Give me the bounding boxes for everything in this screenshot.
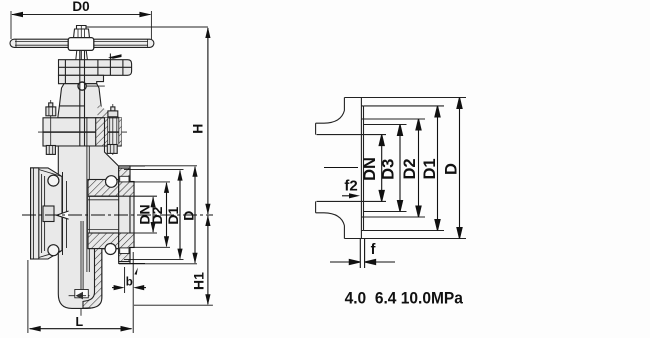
dimension b [112,252,146,333]
svg-text:D0: D0 [72,0,89,14]
dimension H [205,27,210,215]
dimension D0 line with arrows [11,12,151,18]
stuffing box block under yoke [59,75,104,83]
dimension D2 (left figure) [129,182,170,247]
flange left face (upper segment) [343,98,345,111]
yoke plate [59,54,132,76]
svg-text:D1: D1 [421,158,439,179]
bonnet bolt right in section [105,104,122,155]
pipe end edge lower [315,201,317,212]
svg-text:D: D [181,211,197,221]
inlet flange left [31,168,62,259]
outlet flange disc in section [119,166,145,264]
pipe hub lower wall with fillet [316,213,345,226]
bonnet bell [58,84,108,118]
H top reference line from stem to H dimension [86,26,207,28]
body bottom wall hatch crescent [83,249,102,309]
dimension DN (left figure) [151,196,156,233]
vertical axis stub below body [80,309,82,316]
svg-text:D1: D1 [165,207,181,225]
right figure: pipe flange cross-section [316,98,466,239]
bore line bottom (DN extension) [317,200,387,202]
bonnet wall hatch band [96,118,105,180]
flange OD bottom line / D extension [344,238,466,240]
centerline segment of flange [324,167,358,169]
raised face of flange [361,106,363,231]
inlet flange bolt hole top [48,175,59,186]
handwheel hub [68,38,94,51]
D3 extension line bottom [364,211,407,213]
small arrow mark above yoke [108,54,122,59]
dimension f (raised face thickness) [330,239,395,268]
svg-text:D3: D3 [380,159,398,180]
inlet flange bolt hole bottom [48,245,59,256]
handwheel bar [10,39,154,47]
port interior fill [88,196,130,233]
bonnet gasket joint line [38,131,127,133]
flange right face [360,98,362,239]
pipe hub upper wall with fillet [316,111,345,124]
flange OD top line / D extension [344,97,466,99]
svg-text:D2: D2 [149,206,165,224]
D2 extension line bottom [362,216,426,218]
D2 extension line top [362,118,426,120]
svg-text:D: D [442,163,460,175]
D3 extension line top [364,124,407,126]
flange left face (lower segment) [343,226,345,239]
horizontal centerline of valve [22,214,213,216]
dimension D2 (right figure) [416,119,421,217]
seat ring block [43,206,54,222]
svg-text:D2: D2 [401,158,419,179]
svg-text:H1: H1 [191,272,207,290]
stem lines through yoke [80,50,85,146]
dimension D (left figure) [119,166,198,264]
svg-text:f2: f2 [344,178,357,195]
bonnet bolt left [46,100,56,155]
dimension D1 (right figure) [435,106,440,231]
outlet flange bolt hole top [106,176,118,188]
outlet flange bolt hole bottom [105,244,116,255]
wedge guide bracket at bottom [69,290,92,300]
dimension L [28,260,133,333]
dimension D3 [397,125,402,212]
D1 extension line bottom [364,230,444,232]
svg-text:DN: DN [361,157,379,181]
gate wedge edge lines [87,117,89,272]
body wall hatch band lower [96,233,105,249]
dimension D (right figure) [457,98,462,239]
D0 extension line right [150,11,152,39]
dimension H1 [134,215,213,305]
left figure: gate valve half-section [10,11,213,316]
dimension D1 (left figure) [124,170,184,260]
svg-text:4.0 6.4 10.0MPa: 4.0 6.4 10.0MPa [345,289,464,308]
body barrel edge lines [63,172,67,255]
outlet port walls hatched [88,180,157,249]
label f2 with leader arrow [342,178,360,199]
pipe end edge upper [315,123,317,134]
D1 extension line top [364,105,444,107]
wedge pointer at seat [57,211,69,219]
svg-text:f: f [371,242,376,258]
valve body mass [58,146,119,308]
svg-text:L: L [75,315,83,329]
stem/wedge lines to bracket [81,221,83,290]
svg-text:b: b [126,277,133,289]
D0 extension line left [10,11,12,39]
dimension DN (right figure) [379,135,384,202]
bonnet flange slab upper [43,118,121,132]
gland eye bolt circle [78,82,105,90]
stem top nut [74,26,90,39]
svg-text:H: H [190,124,206,134]
body flange slab lower [43,132,121,146]
stem below hub [76,50,88,59]
bore line top (DN extension) [317,134,387,136]
